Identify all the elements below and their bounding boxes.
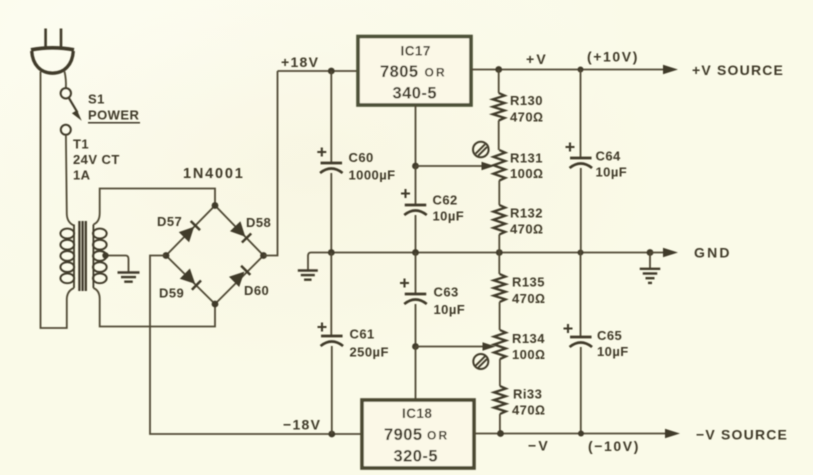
- junction (bridge left): [163, 252, 170, 259]
- junction (-V chain): [497, 430, 504, 437]
- wire (C63 bottom): [415, 304, 417, 347]
- junction (rail/chain): [496, 249, 503, 256]
- potentiometer R134: [494, 330, 545, 362]
- resistor R135: [494, 274, 546, 306]
- wire (bridge L-B): [166, 256, 215, 305]
- wire (GND rail left elbow): [308, 253, 311, 270]
- wire (C64 top): [580, 70, 582, 158]
- wire: [93, 189, 215, 225]
- capacitor C61: [318, 323, 389, 360]
- svg-text:1A: 1A: [73, 168, 91, 183]
- wire: [499, 359, 501, 386]
- op-amp U-style box IC18: [362, 400, 474, 468]
- wire: [499, 414, 501, 434]
- svg-text:R135: R135: [512, 275, 545, 290]
- junction (+V chain): [495, 66, 502, 73]
- svg-text:(−10V): (−10V): [588, 438, 640, 454]
- svg-text:D57: D57: [157, 214, 182, 229]
- junction (C60 tap): [328, 68, 335, 75]
- svg-text:C65: C65: [597, 328, 622, 343]
- capacitor C64: [566, 143, 628, 180]
- wire: [498, 253, 500, 275]
- capacitor C63: [400, 279, 465, 318]
- wire (C65 bottom): [580, 347, 582, 434]
- junction (rail/C62): [412, 249, 419, 256]
- wire (C65 top): [580, 253, 582, 337]
- AC plug: [31, 29, 74, 74]
- wire (C63 top): [415, 253, 417, 294]
- svg-text:10µF: 10µF: [433, 209, 465, 224]
- switch S1: [61, 88, 140, 135]
- svg-text:250µF: 250µF: [350, 345, 389, 360]
- junction (bridge bottom): [212, 301, 219, 308]
- ground (GND stub): [649, 253, 651, 269]
- wire: [498, 181, 500, 206]
- wire (+V rail): [471, 69, 581, 71]
- diode D58: [230, 215, 271, 243]
- wire (C62 bottom): [415, 215, 417, 253]
- diode D57: [157, 214, 200, 242]
- svg-text:OR: OR: [425, 66, 447, 80]
- wire: [65, 72, 66, 88]
- svg-text:−V SOURCE: −V SOURCE: [696, 427, 788, 443]
- svg-text:470Ω: 470Ω: [510, 110, 543, 125]
- label T1: [73, 137, 120, 183]
- junction (-V C65): [578, 431, 584, 437]
- junction (adj/C62): [412, 163, 419, 170]
- transformer T1: [60, 221, 106, 291]
- wire: [150, 256, 362, 435]
- svg-text:10µF: 10µF: [434, 302, 466, 317]
- wire: [264, 71, 278, 256]
- svg-text:100Ω: 100Ω: [510, 166, 543, 181]
- svg-text:D59: D59: [159, 286, 184, 301]
- wire (IC18 adj): [415, 347, 417, 401]
- adjust symbol (R131): [473, 142, 489, 158]
- junction (bridge top): [212, 202, 219, 209]
- svg-text:D60: D60: [244, 283, 269, 298]
- wire (+18V rail): [278, 70, 359, 72]
- wire (GND rail): [311, 252, 650, 254]
- junction (C61 tap): [328, 431, 335, 438]
- potentiometer R131: [493, 150, 543, 181]
- svg-text:R131: R131: [510, 151, 543, 166]
- svg-text:470Ω: 470Ω: [510, 222, 543, 237]
- wire: [498, 235, 500, 253]
- wire: [41, 72, 75, 329]
- svg-text:7805: 7805: [380, 63, 419, 81]
- svg-text:−18V: −18V: [283, 417, 321, 433]
- svg-text:C61: C61: [350, 327, 375, 342]
- node GND arrow: [650, 252, 675, 254]
- wire (chain top): [498, 70, 500, 94]
- adjust symbol (R134): [473, 354, 488, 369]
- ground (center tap): [118, 273, 140, 282]
- svg-text:Ri33: Ri33: [513, 387, 542, 402]
- wire (IC17 adj): [415, 105, 417, 166]
- junction (rail/C60): [328, 249, 335, 256]
- diode D60: [229, 266, 269, 298]
- wire: [93, 288, 215, 327]
- wire (C61 bottom): [331, 346, 333, 434]
- capacitor C65: [564, 324, 629, 359]
- junction (+V C64): [578, 67, 584, 73]
- wire (C64 bottom): [580, 168, 582, 253]
- ground (left rail): [298, 271, 318, 280]
- svg-text:GND: GND: [694, 245, 732, 261]
- wire (bridge B-R): [215, 256, 264, 305]
- svg-text:R132: R132: [510, 206, 543, 221]
- svg-text:10µF: 10µF: [596, 165, 628, 180]
- wire: [498, 121, 500, 151]
- svg-text:C63: C63: [434, 285, 459, 300]
- wire: [66, 135, 74, 225]
- resistor R130: [493, 93, 544, 125]
- junction (adj/C63): [412, 343, 419, 350]
- wire: [499, 302, 501, 330]
- wire (adj to R131 wiper): [416, 165, 492, 167]
- capacitor C60: [317, 148, 395, 183]
- svg-text:S1: S1: [88, 92, 105, 107]
- node +V SOURCE arrow: [581, 69, 676, 71]
- wire (center tap): [106, 256, 129, 272]
- resistor R133: [494, 386, 545, 418]
- capacitor C62: [401, 189, 464, 224]
- svg-text:IC18: IC18: [402, 406, 432, 421]
- svg-text:D58: D58: [246, 215, 271, 230]
- junction (center tap): [102, 252, 108, 258]
- node -V SOURCE arrow: [581, 433, 677, 435]
- svg-text:C62: C62: [433, 193, 458, 208]
- svg-text:+V: +V: [526, 51, 548, 67]
- svg-text:7905: 7905: [384, 426, 423, 444]
- wire (bridge L-T): [166, 206, 215, 256]
- svg-text:R134: R134: [512, 331, 545, 346]
- svg-text:R130: R130: [510, 93, 543, 108]
- resistor R132: [493, 205, 543, 237]
- svg-text:470Ω: 470Ω: [512, 291, 545, 306]
- junction (rail/C64): [578, 250, 584, 256]
- op-amp U-style box IC17: [358, 37, 471, 106]
- svg-text:1000µF: 1000µF: [349, 168, 396, 183]
- svg-text:POWER: POWER: [88, 108, 140, 123]
- svg-text:−V: −V: [528, 438, 550, 454]
- svg-text:C64: C64: [596, 149, 622, 164]
- svg-text:(+10V): (+10V): [587, 49, 639, 65]
- wire (-V rail): [474, 433, 581, 435]
- diode D59: [159, 269, 201, 301]
- svg-text:340-5: 340-5: [393, 85, 437, 103]
- svg-text:C60: C60: [349, 150, 374, 165]
- svg-text:IC17: IC17: [401, 44, 431, 59]
- svg-text:100Ω: 100Ω: [512, 347, 545, 362]
- wire (C61 top): [330, 253, 332, 336]
- ground (GND): [640, 269, 661, 283]
- wire (bridge T-R): [215, 206, 264, 256]
- wire (C60 top): [330, 71, 332, 162]
- junction (bridge right): [260, 252, 267, 259]
- wire (C62 top): [415, 166, 417, 204]
- wire (C60 bottom): [330, 173, 332, 253]
- svg-text:24V CT: 24V CT: [73, 152, 120, 167]
- svg-text:OR: OR: [427, 429, 449, 443]
- svg-text:+18V: +18V: [281, 54, 319, 70]
- svg-text:320-5: 320-5: [394, 448, 438, 466]
- wire (adj to R134 wiper): [416, 346, 493, 348]
- svg-text:470Ω: 470Ω: [512, 403, 545, 418]
- junction (rail/GND arrow): [647, 249, 654, 256]
- svg-text:10µF: 10µF: [597, 344, 629, 359]
- svg-text:1N4001: 1N4001: [183, 166, 245, 182]
- svg-text:+V SOURCE: +V SOURCE: [692, 62, 784, 78]
- svg-text:T1: T1: [73, 137, 89, 152]
